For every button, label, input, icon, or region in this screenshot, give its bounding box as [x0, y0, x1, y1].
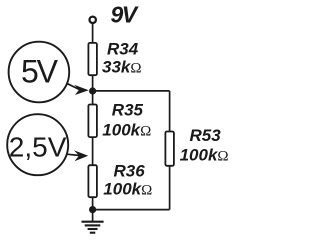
svg-text:100kΩ: 100kΩ — [103, 180, 152, 199]
svg-text:R36: R36 — [114, 161, 146, 180]
ground node junction dot — [89, 206, 96, 213]
wire R34 to node A — [92, 76, 94, 104]
svg-text:2,5V: 2,5V — [9, 131, 67, 162]
pointer line from 5V circle — [67, 83, 80, 89]
svg-text:R35: R35 — [112, 101, 144, 120]
wire R35 to R36 (node B) — [92, 137, 94, 165]
resistor R34 body — [88, 43, 97, 75]
arrowhead to node A (5V probe) — [74, 85, 89, 95]
wire right branch down to R53 — [169, 91, 171, 132]
ground bar 3 — [88, 228, 98, 230]
svg-text:9V: 9V — [111, 2, 139, 28]
terminal 9V — [90, 17, 96, 23]
ground bar 4 — [90, 232, 96, 234]
pointer line from 2,5V circle — [67, 154, 79, 155]
wire R53 to bottom rail — [169, 166, 171, 210]
svg-text:R53: R53 — [190, 126, 222, 145]
resistor R53 body — [165, 132, 174, 166]
node A junction dot — [89, 87, 96, 94]
ground bar 1 — [82, 221, 104, 223]
svg-text:100kΩ: 100kΩ — [102, 121, 151, 140]
svg-text:5V: 5V — [21, 53, 59, 89]
wire R36 to ground — [92, 197, 94, 221]
svg-text:R34: R34 — [107, 40, 139, 59]
wire top terminal to R34 — [92, 24, 94, 43]
resistor R36 body — [88, 165, 97, 197]
arrowhead to node B (2,5V probe) — [74, 150, 88, 161]
source circle 5V — [9, 42, 70, 103]
ground bar 2 — [85, 224, 101, 226]
svg-text:100kΩ: 100kΩ — [180, 146, 229, 165]
source circle 2,5V — [7, 114, 68, 175]
wire node A to right branch — [93, 90, 170, 92]
resistor R35 body — [88, 105, 97, 138]
svg-text:33kΩ: 33kΩ — [102, 58, 142, 77]
wire bottom rail to ground node — [93, 209, 170, 211]
